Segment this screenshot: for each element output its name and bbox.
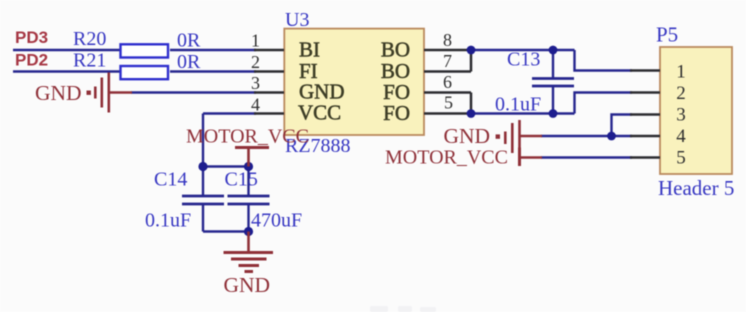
svg-text:GND: GND bbox=[224, 273, 271, 297]
svg-text:6: 6 bbox=[443, 72, 452, 92]
svg-text:FO: FO bbox=[383, 101, 410, 125]
svg-text:GND: GND bbox=[444, 124, 491, 148]
svg-text:3: 3 bbox=[251, 73, 260, 93]
svg-text:0.1uF: 0.1uF bbox=[495, 94, 541, 116]
svg-text:5: 5 bbox=[444, 93, 453, 113]
svg-text:U3: U3 bbox=[285, 9, 309, 31]
svg-text:VCC: VCC bbox=[298, 101, 341, 125]
svg-text:BI: BI bbox=[299, 38, 320, 62]
svg-text:3: 3 bbox=[676, 105, 686, 126]
svg-text:4: 4 bbox=[251, 95, 260, 115]
svg-text:7: 7 bbox=[443, 51, 452, 71]
svg-text:4: 4 bbox=[676, 126, 686, 147]
svg-text:MOTOR_VCC: MOTOR_VCC bbox=[385, 147, 508, 169]
svg-text:PD2: PD2 bbox=[15, 51, 48, 70]
svg-text:R21: R21 bbox=[73, 50, 106, 72]
svg-text:470uF: 470uF bbox=[251, 210, 302, 232]
svg-text:GND: GND bbox=[35, 81, 82, 105]
svg-text:C13: C13 bbox=[507, 49, 540, 71]
svg-text:8: 8 bbox=[443, 30, 452, 50]
svg-text:R20: R20 bbox=[73, 28, 106, 50]
svg-text:PD3: PD3 bbox=[15, 28, 48, 47]
svg-text:2: 2 bbox=[251, 52, 260, 72]
svg-text:C15: C15 bbox=[225, 169, 258, 191]
svg-text:MOTOR_VCC: MOTOR_VCC bbox=[186, 126, 309, 148]
svg-text:0R: 0R bbox=[177, 51, 201, 73]
svg-text:P5: P5 bbox=[656, 23, 678, 47]
svg-text:0R: 0R bbox=[177, 30, 201, 52]
svg-text:Header 5: Header 5 bbox=[658, 176, 734, 200]
svg-text:2: 2 bbox=[676, 83, 686, 104]
svg-text:1: 1 bbox=[676, 62, 686, 83]
svg-text:1: 1 bbox=[251, 31, 260, 51]
svg-text:C14: C14 bbox=[154, 169, 187, 191]
svg-text:5: 5 bbox=[676, 148, 686, 169]
svg-text:0.1uF: 0.1uF bbox=[145, 210, 191, 232]
svg-text:BO: BO bbox=[381, 38, 410, 62]
